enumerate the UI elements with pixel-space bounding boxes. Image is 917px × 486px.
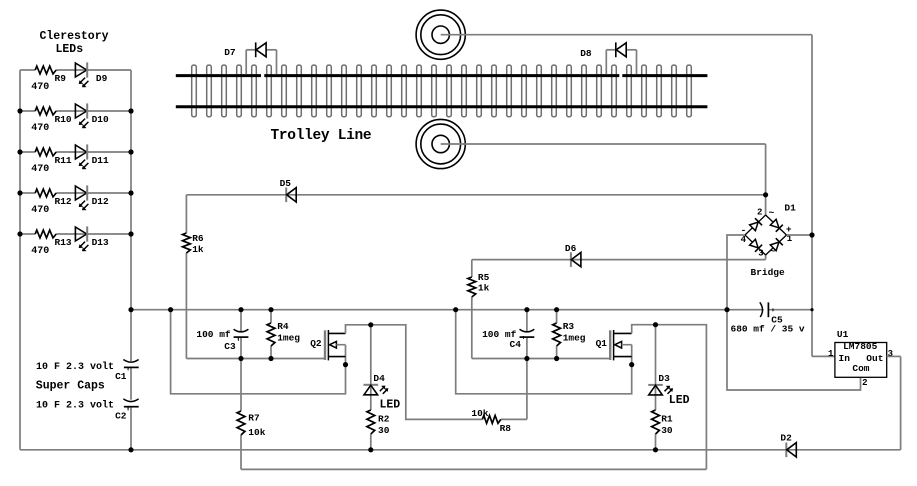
bridge - label [741,225,747,236]
resistor R10 [35,107,56,115]
bridge rectifier D1 bottom-left diode [745,235,766,255]
svg-text:10k: 10k [471,408,488,419]
led D12 [75,185,88,210]
capacitor C5 [760,302,769,317]
label D5 [280,178,292,189]
wire cross-couple (wire2, R7 to Q1 drain) [241,468,706,470]
svg-text:R12: R12 [55,196,72,207]
led D3 [648,385,673,395]
value 10 F 2.3 volt (C2) [36,400,114,412]
trolley track top rail (with gaps at D7 and D8) [176,74,708,77]
wire D3/R1 branch [655,325,657,450]
label C1 [115,367,131,382]
svg-text:Q2: Q2 [310,338,322,349]
svg-text:D7: D7 [224,47,236,58]
wire D4/R2 branch [370,325,372,450]
value 1k (R6) [192,244,204,255]
value 10k (R7) [248,427,265,438]
wire Q2 drain to R8 [346,325,527,420]
label R6 [192,233,204,244]
svg-text:D4: D4 [373,373,385,384]
trolley track bottom rail [176,105,708,108]
wire D8 left tap to top rail [606,50,616,74]
led D10 [75,103,88,128]
U1 pin 3 label [888,349,893,359]
wire LED row R11/D11 [20,151,131,153]
svg-text:': ' [521,335,526,345]
svg-text:Q1: Q1 [596,338,608,349]
value 470 (R12) [31,205,49,216]
svg-text:Out: Out [866,353,883,364]
label R10 [55,114,72,125]
svg-text:In: In [839,353,851,364]
bridge rectifier D1 top-right diode [766,215,787,235]
label D6 [565,243,577,254]
svg-text:2: 2 [862,378,867,388]
wire D6 line from bridge AC- to R5 top [472,255,766,260]
label D11 [92,155,109,166]
svg-text:D13: D13 [92,237,109,248]
label D9 [96,73,108,84]
label Q1 [596,338,608,349]
bridge pin 4 label [741,235,747,245]
svg-text:Bridge: Bridge [751,267,786,278]
svg-text:Clerestory: Clerestory [40,30,109,43]
label R12 [55,196,72,207]
svg-text:Trolley Line: Trolley Line [271,128,372,144]
svg-text:': ' [125,367,130,377]
capacitor C1 [123,360,138,368]
svg-text:10 F 2.3 volt: 10 F 2.3 volt [36,361,114,373]
svg-text:10 F 2.3 volt: 10 F 2.3 volt [36,400,114,412]
diode D2 [786,443,796,458]
svg-text:': ' [125,407,130,417]
wire LED row R12/D12 [20,192,131,194]
resistor R5 [468,277,476,297]
wire U1 output [887,355,901,357]
svg-text:2: 2 [757,207,762,217]
svg-text:R2: R2 [378,414,390,425]
svg-text:470: 470 [31,246,49,257]
label Bridge [751,267,786,278]
wire R5 vertical [471,260,473,359]
value 30 (R1) [661,425,673,436]
wire Q2 gate line [186,358,325,360]
value 470 (R11) [31,164,49,175]
resistor R6 [183,233,191,253]
resistor R2 [367,410,375,434]
svg-text:470: 470 [31,164,49,175]
label R5 [478,272,490,283]
value 10 F 2.3 volt (C1) [36,361,114,373]
wire LED row R9/D9 [20,69,131,71]
wire D7 right tap to top rail [266,50,276,74]
label D2 [780,432,792,443]
bridge pin 2 label [757,207,762,217]
svg-text:1k: 1k [192,244,204,255]
svg-text:D11: D11 [92,155,109,166]
svg-text:10k: 10k [248,427,265,438]
value 100 mf (C3) [196,329,231,340]
wire U1 input [812,355,835,357]
resistor R7 [237,411,245,435]
value 680 mf / 35 v (C5) [731,324,805,335]
bridge + label [786,224,792,235]
value 30 (R2) [378,425,390,436]
bridge pin 3 label [758,248,763,258]
resistor R8 [482,416,500,424]
diode D5 [286,188,296,203]
wire main bus (supercap + rail) [131,309,812,311]
svg-text:30: 30 [378,425,390,436]
led D11 [75,144,88,169]
label R11 [55,155,72,166]
svg-text:R3: R3 [563,321,575,332]
svg-text:D9: D9 [96,73,108,84]
label D13 [92,237,109,248]
svg-text:~: ~ [769,208,775,219]
capacitor C4 [520,329,535,337]
wire C4/R8 vertical [526,310,528,420]
U1 pin 1 label [828,349,834,359]
svg-text:D8: D8 [580,48,592,59]
svg-text:1meg: 1meg [277,332,300,343]
value 100 mf (C4) [482,329,517,340]
label LM7805 [843,341,878,352]
wire R6 vertical [185,195,187,359]
svg-text:1: 1 [828,349,834,359]
svg-text:Super Caps: Super Caps [36,379,105,392]
wire C3/R7 vertical [240,310,242,470]
label D10 [92,114,109,125]
U1 pin 2 label [862,378,867,388]
op-amp U1 regulator box [835,343,887,378]
svg-text:R11: R11 [55,155,72,166]
wire from bottom wheel down to bridge AC terminal [441,144,766,215]
svg-text:Com: Com [852,363,869,374]
wire bottom common (wire1) [20,356,901,449]
label D4 [373,373,385,384]
svg-text:LED: LED [669,394,690,407]
svg-text:30: 30 [661,425,673,436]
label D8 [580,48,592,59]
trolley pole wheel (top pickup) [416,10,465,59]
wire Q1 gate line [472,358,610,360]
svg-text:LED: LED [380,398,401,411]
label Trolley Line [271,128,372,144]
left rail of LED array [19,70,21,450]
svg-text:1k: 1k [478,283,490,294]
svg-text:C4: C4 [510,339,522,350]
label Out [866,353,883,364]
bridge ~ bottom label [770,246,776,257]
resistor R3 [553,323,561,346]
resistor R13 [35,230,56,238]
svg-text:100 mf: 100 mf [196,329,231,340]
svg-text:': ' [770,308,775,318]
label R8 [500,423,512,434]
label C5 [770,308,783,325]
svg-text:1meg: 1meg [563,332,586,343]
label R13 [55,237,72,248]
label R2 [378,414,390,425]
svg-text:470: 470 [31,82,49,93]
wire Q2 source loop [171,310,346,394]
svg-text:R6: R6 [192,233,204,244]
wire bridge + output [787,234,813,236]
label Clerestory LEDs [40,30,109,56]
trolley track ties [192,65,692,117]
svg-text:D2: D2 [780,432,792,443]
transistor Q2 [325,330,346,360]
svg-text:D6: D6 [565,243,577,254]
bridge ~ top label [769,208,775,219]
wire Q1 source loop [456,310,632,394]
value 10k (R8) [471,408,488,419]
value 470 (R13) [31,246,49,257]
wire Q1 drain to wire2 [632,325,707,470]
svg-text:470: 470 [31,205,49,216]
svg-text:R1: R1 [661,414,673,425]
label D1 [784,203,796,214]
label C4 [510,335,527,350]
resistor R12 [35,189,56,197]
value 470 (R10) [31,123,49,134]
wire bridge - to common [727,235,861,390]
led D13 [75,226,88,251]
svg-text:4: 4 [741,235,747,245]
wire LED row R13/D13 [20,233,131,235]
led D9 [75,62,88,87]
svg-text:': ' [236,337,241,347]
wire R4 vertical [270,310,272,359]
wire LED row R10/D10 [20,110,131,112]
label R7 [248,413,260,424]
svg-text:680 mf / 35 v: 680 mf / 35 v [731,324,805,335]
svg-text:D5: D5 [280,178,292,189]
wire R3 vertical [556,310,558,359]
svg-text:R7: R7 [248,413,260,424]
label R4 [277,321,289,332]
label LED (D3) [669,394,690,407]
label Q2 [310,338,322,349]
svg-text:D1: D1 [784,203,796,214]
value 1meg (R3) [563,332,586,343]
label U1 [837,329,849,340]
transistor Q1 [610,330,632,360]
svg-text:D10: D10 [92,114,109,125]
led D4 [364,385,389,395]
svg-text:D12: D12 [92,196,109,207]
svg-text:+: + [786,224,792,235]
diode D6 [571,252,581,267]
label D7 [224,47,236,58]
svg-text:R5: R5 [478,272,490,283]
svg-text:R4: R4 [277,321,289,332]
label LED (D4) [380,398,401,411]
svg-text:470: 470 [31,123,49,134]
wire D7 left tap to top rail [246,50,256,74]
label Super Caps [36,379,105,392]
svg-text:3: 3 [758,248,763,258]
svg-text:R13: R13 [55,237,72,248]
svg-text:LM7805: LM7805 [843,341,878,352]
value 1k (R5) [478,283,490,294]
label R9 [55,73,67,84]
svg-text:D3: D3 [658,373,670,384]
value 470 (R9) [31,82,49,93]
capacitor C3 [234,329,249,337]
svg-text:R10: R10 [55,114,72,125]
wire D8 right tap to top rail [626,50,636,74]
label C3 [224,337,241,352]
diode D8 [616,42,626,57]
svg-text:U1: U1 [837,329,849,340]
label Com [852,363,869,374]
wire D5 line from R6 top to bridge AC [186,194,765,196]
value 1meg (R4) [277,332,300,343]
svg-text:C3: C3 [224,341,236,352]
resistor R11 [35,148,56,156]
bridge rectifier D1 bottom-right diode [766,235,787,255]
right rail of LED array [130,70,132,450]
resistor R1 [652,410,660,434]
label C2 [115,407,131,422]
resistor R9 [35,66,56,74]
trolley wheel (bottom pickup) [416,119,465,168]
bridge rectifier D1 top-left diode [745,215,766,235]
label D12 [92,196,109,207]
label R1 [661,414,673,425]
svg-text:3: 3 [888,349,893,359]
resistor R4 [267,323,275,346]
wire from top wheel to bridge + rail [441,35,812,357]
label In [839,353,851,364]
svg-text:R9: R9 [55,73,67,84]
bridge pin 1 label [787,234,793,244]
svg-text:LEDs: LEDs [56,43,84,56]
label R3 [563,321,575,332]
diode D7 [256,42,266,57]
svg-text:R8: R8 [500,423,512,434]
label D3 [658,373,670,384]
capacitor C2 [123,399,138,407]
svg-text:~: ~ [770,246,776,257]
